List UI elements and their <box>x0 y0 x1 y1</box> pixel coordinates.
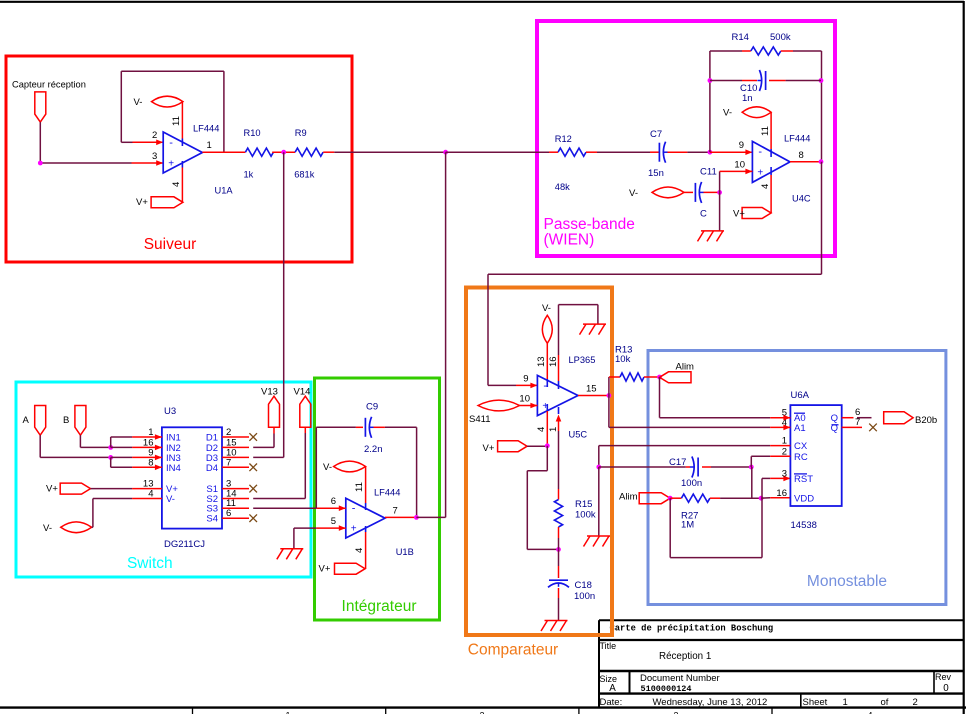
svg-text:15n: 15n <box>648 168 664 179</box>
svg-text:S4: S4 <box>206 514 218 525</box>
svg-text:2: 2 <box>913 697 918 708</box>
svg-text:V-: V- <box>629 188 638 199</box>
svg-text:4: 4 <box>148 489 153 500</box>
svg-text:9: 9 <box>523 374 528 385</box>
svg-text:681k: 681k <box>294 169 315 179</box>
svg-text:V-: V- <box>723 108 732 119</box>
svg-text:Date:: Date: <box>600 697 623 708</box>
svg-text:Capteur réception: Capteur réception <box>12 80 86 90</box>
svg-text:A1: A1 <box>794 423 806 434</box>
svg-text:Passe-bande: Passe-bande <box>544 216 635 233</box>
svg-text:1M: 1M <box>681 520 694 531</box>
svg-text:2: 2 <box>152 130 157 141</box>
svg-text:6: 6 <box>331 496 336 507</box>
svg-text:16: 16 <box>776 488 787 499</box>
svg-text:16: 16 <box>548 356 559 367</box>
svg-text:U6A: U6A <box>791 390 810 401</box>
svg-text:IN1: IN1 <box>166 433 181 444</box>
svg-text:Suiveur: Suiveur <box>144 236 197 253</box>
svg-text:2.2n: 2.2n <box>364 444 383 455</box>
svg-text:2: 2 <box>226 427 231 438</box>
svg-text:4: 4 <box>171 182 182 187</box>
svg-text:1: 1 <box>207 140 212 151</box>
svg-text:D4: D4 <box>206 463 218 474</box>
svg-text:DG211CJ: DG211CJ <box>164 539 205 550</box>
svg-text:11: 11 <box>171 116 182 126</box>
svg-text:V13: V13 <box>261 387 278 398</box>
svg-text:+: + <box>351 524 357 535</box>
svg-text:100n: 100n <box>574 591 595 602</box>
svg-text:RST: RST <box>794 474 813 485</box>
svg-text:LF444: LF444 <box>193 124 219 134</box>
svg-text:CX: CX <box>794 441 808 452</box>
svg-text:100k: 100k <box>575 510 596 521</box>
svg-text:V+: V+ <box>733 209 745 220</box>
svg-text:10: 10 <box>519 394 530 405</box>
svg-text:3: 3 <box>782 468 787 479</box>
svg-text:(WIEN): (WIEN) <box>544 232 595 249</box>
svg-text:8: 8 <box>148 457 153 468</box>
svg-text:5100000124: 5100000124 <box>641 684 692 694</box>
svg-text:C11: C11 <box>700 167 717 178</box>
svg-text:R9: R9 <box>295 128 307 138</box>
svg-text:13: 13 <box>536 356 547 367</box>
svg-text:U1A: U1A <box>215 185 234 195</box>
svg-text:11: 11 <box>354 482 365 492</box>
svg-text:15: 15 <box>586 384 597 395</box>
svg-text:of: of <box>881 697 889 708</box>
svg-text:-: - <box>758 146 762 158</box>
svg-text:100n: 100n <box>681 478 702 489</box>
svg-text:A: A <box>23 415 30 426</box>
svg-text:U5C: U5C <box>569 430 588 440</box>
svg-text:V+: V+ <box>319 564 331 575</box>
svg-text:1n: 1n <box>742 93 753 104</box>
svg-text:11: 11 <box>760 126 771 136</box>
svg-text:2: 2 <box>479 711 484 714</box>
svg-text:Title: Title <box>600 641 617 651</box>
svg-text:RC: RC <box>794 452 808 463</box>
svg-text:V+: V+ <box>46 484 58 495</box>
svg-text:C18: C18 <box>575 580 592 591</box>
svg-text:V-: V- <box>166 494 175 505</box>
svg-text:R12: R12 <box>555 134 572 144</box>
svg-text:5: 5 <box>331 516 336 527</box>
svg-text:V14: V14 <box>294 387 311 398</box>
svg-text:Rev: Rev <box>935 672 952 682</box>
svg-text:V-: V- <box>134 97 143 108</box>
svg-text:1k: 1k <box>244 169 254 179</box>
svg-text:Monostable: Monostable <box>807 573 887 590</box>
svg-text:Carte de précipitation Boschun: Carte de précipitation Boschung <box>610 624 774 634</box>
svg-text:7: 7 <box>393 506 398 517</box>
svg-text:-: - <box>352 503 356 515</box>
svg-text:Comparateur: Comparateur <box>468 642 558 659</box>
svg-text:Switch: Switch <box>127 555 173 572</box>
svg-text:500k: 500k <box>770 32 791 43</box>
svg-text:C7: C7 <box>650 129 662 140</box>
svg-text:4: 4 <box>867 711 872 714</box>
svg-text:LF444: LF444 <box>374 488 400 498</box>
svg-text:S411: S411 <box>469 414 490 425</box>
svg-text:48k: 48k <box>555 182 570 192</box>
svg-text:9: 9 <box>739 140 744 151</box>
svg-text:14538: 14538 <box>791 520 817 531</box>
svg-text:8: 8 <box>799 150 804 161</box>
svg-text:V-: V- <box>542 303 551 314</box>
svg-text:10: 10 <box>734 160 745 171</box>
svg-text:-: - <box>169 137 173 149</box>
svg-text:V-: V- <box>323 462 332 473</box>
svg-text:U3: U3 <box>164 406 176 417</box>
svg-text:B: B <box>63 415 69 426</box>
svg-text:R15: R15 <box>575 499 592 510</box>
svg-text:10k: 10k <box>615 354 631 365</box>
svg-text:0: 0 <box>943 683 949 694</box>
svg-text:+: + <box>168 158 174 169</box>
svg-text:Alim: Alim <box>676 362 695 373</box>
svg-text:Alim: Alim <box>619 492 638 503</box>
svg-text:D1: D1 <box>206 433 218 444</box>
svg-text:IN4: IN4 <box>166 463 181 474</box>
svg-text:4: 4 <box>354 548 365 553</box>
svg-text:7: 7 <box>226 457 231 468</box>
svg-text:1: 1 <box>285 711 290 714</box>
svg-text:6: 6 <box>226 508 231 519</box>
svg-text:Document Number: Document Number <box>640 673 720 684</box>
svg-text:LP365: LP365 <box>569 355 596 365</box>
svg-text:R14: R14 <box>732 32 749 43</box>
svg-text:1: 1 <box>548 427 559 432</box>
svg-text:V+: V+ <box>483 443 495 454</box>
svg-text:C: C <box>700 209 707 220</box>
svg-text:LF444: LF444 <box>784 134 810 144</box>
svg-text:C9: C9 <box>366 402 378 413</box>
svg-text:3: 3 <box>152 151 157 162</box>
svg-text:4: 4 <box>760 184 771 189</box>
svg-text:U1B: U1B <box>396 547 414 557</box>
svg-text:Réception 1: Réception 1 <box>659 651 711 662</box>
svg-text:B20b: B20b <box>915 415 937 426</box>
svg-text:1: 1 <box>843 697 848 708</box>
svg-text:3: 3 <box>673 711 678 714</box>
svg-text:Sheet: Sheet <box>803 697 828 708</box>
svg-text:Intégrateur: Intégrateur <box>342 598 417 615</box>
svg-text:1: 1 <box>148 427 153 438</box>
svg-text:A: A <box>609 683 616 694</box>
svg-text:V+: V+ <box>136 197 148 208</box>
svg-text:+: + <box>757 168 763 179</box>
svg-text:V-: V- <box>43 523 52 534</box>
svg-text:4: 4 <box>536 427 547 432</box>
svg-text:VDD: VDD <box>794 493 814 504</box>
svg-text:7: 7 <box>855 417 860 428</box>
svg-text:C17: C17 <box>669 457 686 468</box>
svg-text:R10: R10 <box>244 128 261 138</box>
svg-text:U4C: U4C <box>792 194 811 204</box>
svg-text:Wednesday, June 13, 2012: Wednesday, June 13, 2012 <box>653 697 768 708</box>
